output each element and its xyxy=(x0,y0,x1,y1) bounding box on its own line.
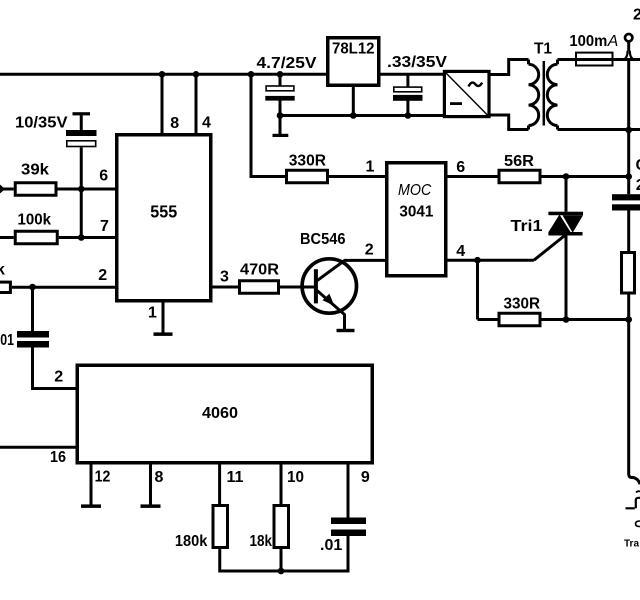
svg-text:4060: 4060 xyxy=(202,405,238,422)
svg-text:3: 3 xyxy=(220,269,229,286)
svg-text:Tri1: Tri1 xyxy=(511,218,543,235)
svg-text:180k: 180k xyxy=(175,533,208,550)
svg-text:7: 7 xyxy=(100,218,109,235)
svg-text:6: 6 xyxy=(99,168,108,185)
svg-text:10: 10 xyxy=(287,469,304,486)
svg-text:MOC: MOC xyxy=(398,182,432,199)
svg-text:56R: 56R xyxy=(504,153,534,170)
svg-text:555: 555 xyxy=(150,201,177,221)
svg-text:01: 01 xyxy=(0,332,14,349)
svg-text:12: 12 xyxy=(95,469,111,486)
svg-text:8: 8 xyxy=(155,469,164,486)
svg-text:16: 16 xyxy=(50,449,66,466)
svg-text:4: 4 xyxy=(456,243,465,260)
svg-text:330R: 330R xyxy=(504,296,541,313)
svg-text:1: 1 xyxy=(366,159,375,176)
svg-text:3041: 3041 xyxy=(399,204,433,221)
svg-text:6: 6 xyxy=(456,159,465,176)
svg-text:78L12: 78L12 xyxy=(332,41,375,58)
svg-text:2: 2 xyxy=(633,7,640,24)
svg-text:470R: 470R xyxy=(240,262,279,279)
svg-text:.33/35V: .33/35V xyxy=(387,54,447,71)
svg-text:39k: 39k xyxy=(21,162,49,179)
svg-text:BC546: BC546 xyxy=(300,231,346,248)
svg-text:T1: T1 xyxy=(534,41,552,58)
svg-text:A: A xyxy=(607,33,618,50)
svg-text:Tra: Tra xyxy=(624,539,639,550)
svg-text:1: 1 xyxy=(148,305,157,322)
svg-text:10/35V: 10/35V xyxy=(15,115,68,132)
svg-text:330R: 330R xyxy=(289,153,327,170)
svg-text:2: 2 xyxy=(98,267,107,284)
svg-text:C: C xyxy=(636,157,640,174)
svg-text:4: 4 xyxy=(202,115,211,132)
svg-text:2: 2 xyxy=(365,242,374,259)
svg-text:18k: 18k xyxy=(250,533,273,550)
svg-text:8: 8 xyxy=(170,115,179,132)
svg-text:k: k xyxy=(0,262,5,279)
svg-text:100k: 100k xyxy=(18,212,52,229)
svg-text:100m: 100m xyxy=(569,33,607,50)
svg-text:4.7/25V: 4.7/25V xyxy=(257,55,317,72)
svg-text:2: 2 xyxy=(636,177,640,194)
svg-text:11: 11 xyxy=(227,469,244,486)
svg-text:.01: .01 xyxy=(320,537,342,554)
svg-text:2: 2 xyxy=(54,369,63,386)
svg-text:9: 9 xyxy=(361,469,370,486)
